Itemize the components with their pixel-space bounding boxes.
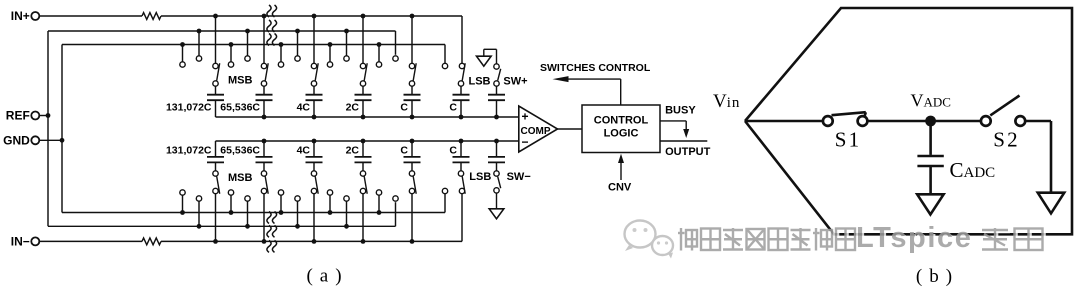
switch bit3 (top) — [311, 63, 318, 86]
capacitor C (top) — [404, 86, 421, 117]
label SW+ (top) — [503, 76, 527, 88]
value label 2C (bottom) — [346, 144, 360, 156]
wire IN+ lead — [39, 15, 142, 17]
switch bit1 (bottom) — [213, 171, 220, 194]
capacitor 65,536C (bottom) — [256, 141, 273, 171]
switch bit2 (top) — [261, 63, 268, 86]
wire CNV with arrow — [618, 154, 624, 180]
node bit6 IN- contact (bottom, rail end) — [459, 188, 464, 193]
op-amp comparator COMP — [519, 106, 558, 152]
svg-text:BUSY: BUSY — [665, 105, 696, 117]
svg-text:S2: S2 — [993, 128, 1020, 152]
svg-text:C: C — [449, 102, 457, 114]
switch bit6 (top) — [458, 63, 465, 86]
node bit5 REF contact (top, rail end) — [393, 56, 398, 61]
switch S2 — [981, 96, 1025, 126]
node bit5 GND contact (top) — [376, 42, 381, 67]
wire IN+ rail (top) — [161, 16, 462, 63]
node bit1 REF contact (bottom) — [196, 196, 201, 229]
svg-text:IN−: IN− — [11, 235, 30, 249]
svg-text:2C: 2C — [346, 144, 360, 156]
capacitor CADC — [917, 126, 943, 194]
node bit4 GND contact (top) — [327, 42, 332, 67]
label BUSY — [665, 105, 696, 117]
svg-text:2C: 2C — [346, 102, 360, 114]
node bit5 REF contact (bottom, rail end) — [393, 196, 398, 201]
ground symbol (CADC) — [917, 194, 944, 214]
caption (b) — [916, 266, 959, 287]
svg-text:MSB: MSB — [228, 172, 253, 184]
svg-text:4C: 4C — [297, 144, 311, 156]
wire comparator output — [558, 128, 583, 130]
wire REF rail (top) — [48, 31, 396, 55]
ground ref symbol (SW+) — [477, 49, 497, 66]
label MSB (bottom) — [228, 172, 253, 184]
node VADC junction — [925, 116, 936, 127]
value label C (bottom) — [449, 144, 457, 156]
value label C (top) — [400, 102, 408, 114]
svg-text:GND: GND — [3, 133, 30, 147]
value label 2C (top) — [346, 102, 360, 114]
svg-text:CONTROL: CONTROL — [594, 114, 649, 126]
wire top comparator bus — [216, 115, 519, 120]
svg-text:C: C — [400, 144, 408, 156]
value label 131,072C (top) — [166, 102, 212, 114]
capacitor 2C (top) — [355, 86, 372, 117]
terminal IN+ — [11, 9, 40, 23]
node bit6 GND contact (top, rail end) — [442, 63, 447, 68]
resistor (IN- series) — [142, 238, 161, 245]
capacitor C (SW- column bottom) — [488, 141, 505, 171]
value label 4C (top) — [297, 102, 311, 114]
label LSB (bottom) — [469, 171, 491, 183]
svg-text:LOGIC: LOGIC — [604, 127, 639, 139]
ground symbol (SW-) — [489, 193, 504, 219]
label S1 — [835, 128, 862, 152]
node bit1 IN- tap (bottom) — [213, 188, 218, 244]
node bit4 IN+ tap (top) — [360, 14, 365, 69]
svg-text:65,536C: 65,536C — [220, 144, 260, 156]
svg-text:131,072C: 131,072C — [166, 144, 212, 156]
value label 131,072C (bottom) — [166, 144, 212, 156]
node bit3 REF contact (bottom) — [295, 196, 300, 229]
wire S2 to ground drop — [1025, 121, 1051, 193]
node bit2 GND contact (top) — [228, 42, 233, 67]
svg-text:Vin: Vin — [713, 91, 740, 112]
array break marks (top rails) — [267, 5, 277, 46]
svg-text:C: C — [449, 144, 457, 156]
capacitor 2C (bottom) — [355, 141, 372, 171]
switch bit1 (top) — [213, 63, 220, 86]
label S2 — [993, 128, 1020, 152]
node bit2 REF contact (bottom) — [245, 196, 250, 229]
svg-text:4C: 4C — [297, 102, 311, 114]
capacitor C (SW+ column top) — [488, 86, 505, 117]
node bit1 GND contact (bottom) — [180, 190, 185, 215]
capacitor 65,536C (top) — [256, 86, 273, 117]
svg-text:REF: REF — [6, 109, 30, 123]
switch SW+ — [494, 64, 501, 86]
wire GND rail (top) — [62, 45, 445, 64]
label CADC — [950, 158, 996, 182]
value label 65,536C (bottom) — [220, 144, 260, 156]
switch bit3 (bottom) — [311, 171, 318, 194]
node bit2 IN+ tap (top) — [261, 14, 266, 69]
ground symbol (right) — [1038, 193, 1065, 214]
value label 4C (bottom) — [297, 144, 311, 156]
svg-text:COMP: COMP — [521, 126, 551, 137]
svg-text:SW−: SW− — [507, 171, 531, 183]
svg-text:+: + — [521, 110, 528, 124]
svg-text:LTspice: LTspice — [856, 222, 972, 254]
wire OUTPUT line — [660, 140, 707, 142]
svg-text:C: C — [400, 102, 408, 114]
wire switches control with arrow — [553, 76, 621, 105]
value label C (bottom) — [400, 144, 408, 156]
caption (a) — [306, 266, 348, 287]
node bit3 IN+ tap (top) — [311, 14, 316, 69]
svg-text:CNV: CNV — [608, 182, 632, 194]
switch bit6 (bottom) — [458, 171, 465, 194]
switch bit5 (bottom) — [409, 171, 416, 194]
node bit2 IN- tap (bottom) — [261, 188, 266, 244]
resistor (IN+ series) — [142, 13, 161, 20]
node bit6 GND contact (bottom, rail end) — [442, 188, 447, 193]
wire REF vertical bracket — [47, 31, 49, 226]
node bit2 GND contact (bottom) — [228, 190, 233, 215]
node bit4 REF contact (top) — [344, 29, 349, 62]
wire S1 to S2 — [867, 120, 981, 123]
terminal IN- — [11, 235, 40, 249]
wire GND vertical bracket — [61, 45, 63, 213]
svg-text:SW+: SW+ — [503, 76, 527, 88]
label LSB (top) — [469, 76, 491, 88]
capacitor C (bottom) — [404, 141, 421, 171]
terminal GND — [3, 133, 39, 147]
array break marks (bottom rails) — [267, 212, 277, 253]
node bit4 GND contact (bottom) — [327, 190, 332, 215]
value label 65,536C (top) — [220, 102, 260, 114]
switch bit2 (bottom) — [261, 171, 268, 194]
svg-text:MSB: MSB — [228, 75, 253, 87]
node bit6 IN+ contact (top, rail end) — [459, 63, 464, 68]
svg-text:LSB: LSB — [469, 76, 491, 88]
svg-text:(a): (a) — [306, 266, 348, 287]
node bit3 REF contact (top) — [295, 29, 300, 62]
capacitor C (bottom) — [453, 141, 470, 171]
wire IN- lead — [39, 240, 142, 242]
label SW- (bottom) — [507, 171, 531, 183]
svg-text:65,536C: 65,536C — [220, 102, 260, 114]
node bit5 IN+ tap (top) — [409, 14, 414, 69]
capacitor 131,072C (top) — [207, 86, 224, 117]
switch bit5 (top) — [409, 63, 416, 86]
label VADC — [911, 91, 951, 111]
node bit2 REF contact (top) — [245, 29, 250, 62]
capacitor 4C (top) — [306, 86, 323, 117]
switch bit4 (top) — [360, 63, 367, 86]
node bit3 GND contact (top) — [278, 42, 283, 67]
node bit5 IN- tap (bottom) — [409, 188, 414, 244]
svg-text:S1: S1 — [835, 128, 862, 152]
wire REF feed — [39, 113, 50, 118]
label SWITCHES CONTROL — [540, 62, 651, 74]
switch S1 — [823, 112, 868, 126]
capacitor 131,072C (bottom) — [207, 141, 224, 171]
node bit4 IN- tap (bottom) — [360, 188, 365, 244]
label Vin — [713, 91, 740, 112]
value label C (top) — [449, 102, 457, 114]
svg-text:IN+: IN+ — [11, 9, 30, 23]
capacitor 4C (bottom) — [306, 141, 323, 171]
capacitor C (top) — [453, 86, 470, 117]
label OUTPUT — [665, 146, 711, 158]
wire REF rail (bottom) — [48, 202, 396, 226]
switch SW- — [494, 171, 501, 193]
node bit1 GND contact (top) — [180, 42, 185, 67]
wire IN- rail (bottom) — [161, 194, 462, 242]
svg-text:(b): (b) — [916, 266, 959, 287]
terminal REF — [6, 109, 40, 123]
svg-text:−: − — [521, 135, 528, 149]
wire bottom comparator bus — [216, 139, 519, 144]
switch bit4 (bottom) — [360, 171, 367, 194]
node bit1 REF contact (top) — [196, 29, 201, 62]
node bit3 IN- tap (bottom) — [311, 188, 316, 244]
wire BUSY with arrow — [660, 121, 689, 138]
wire GND rail (bottom) — [62, 194, 445, 213]
svg-text:SWITCHES CONTROL: SWITCHES CONTROL — [540, 62, 651, 74]
svg-text:LSB: LSB — [469, 171, 491, 183]
svg-text:131,072C: 131,072C — [166, 102, 212, 114]
label CNV — [608, 182, 632, 194]
watermark logo and text — [625, 221, 1045, 259]
control logic block U1 — [582, 105, 660, 153]
label MSB (top) — [228, 75, 253, 87]
wire Vin to S1 — [745, 120, 823, 123]
node bit3 GND contact (bottom) — [278, 190, 283, 215]
wire GND feed — [39, 138, 64, 143]
svg-text:OUTPUT: OUTPUT — [665, 146, 711, 158]
node bit4 REF contact (bottom) — [344, 196, 349, 229]
node bit1 IN+ tap (top) — [213, 14, 218, 69]
magnifier callout outline (b) — [745, 8, 1072, 234]
node bit5 GND contact (bottom) — [376, 190, 381, 215]
